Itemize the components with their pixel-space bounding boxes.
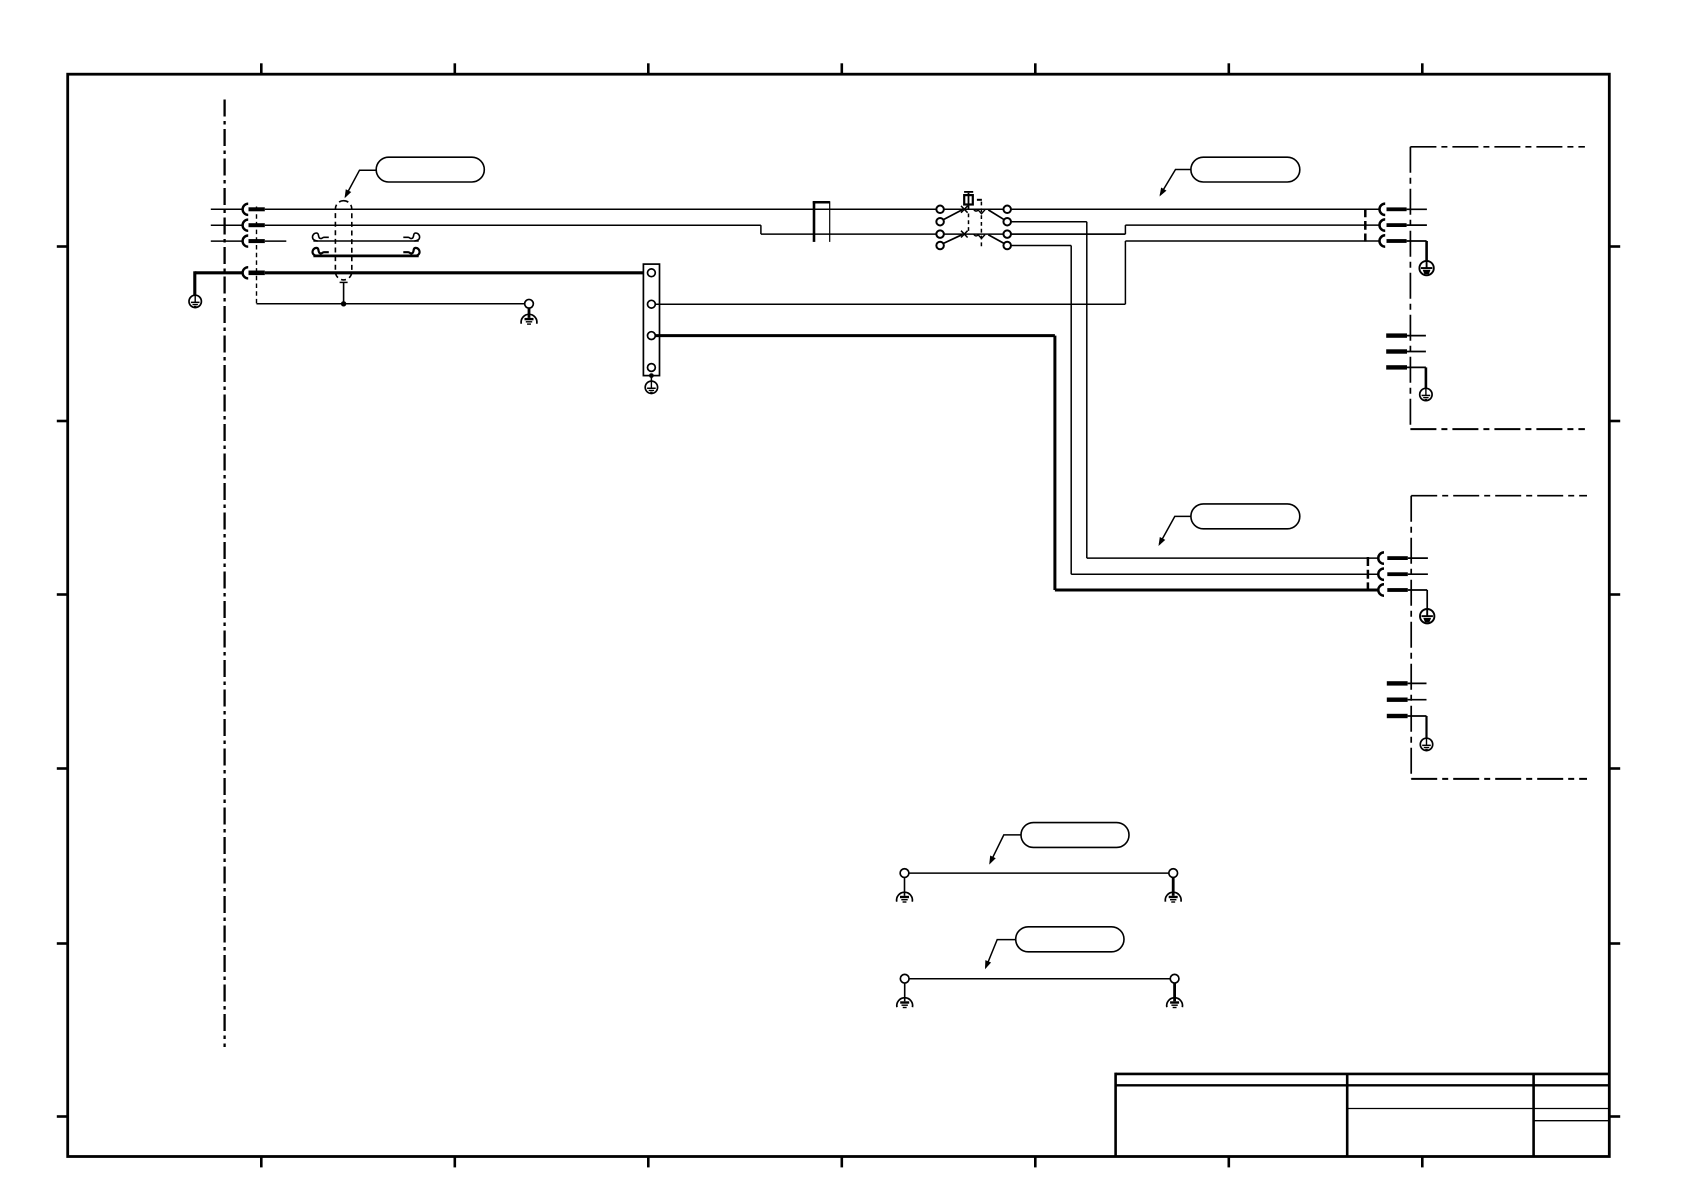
terminal strip X1 [643,264,659,381]
callout balloon (cable shield) [376,157,484,182]
shield drain stem [340,281,348,283]
wire shield drain to functional earth [257,303,525,305]
functional earth (dome) near input [521,299,537,324]
callout balloon (bonding strap 1) [1021,823,1129,848]
ground (circled earth) below terminal strip [645,381,657,393]
fuse F1 [813,201,830,242]
protective earth (circle + wedge) connector B [1420,609,1434,623]
wire X1 row3 to connector B row3 (thick) [655,334,1055,337]
enclosure A (dash-dot box) [1410,147,1585,429]
contactor Q1 (2 changeover poles) [936,191,1011,249]
wire L3 (stub) [211,240,243,242]
connector X0 (incoming supply, 4 contacts) [243,204,265,304]
callout balloon (connector B) [1191,504,1300,529]
connector B main contacts [1368,552,1428,609]
enclosure B (dash-dot box) [1411,496,1587,779]
strap 2 right terminal and earth [1167,974,1183,1008]
spare core 1 (coiled conductor, thin) [313,233,420,241]
callout balloon (connector A) [1191,157,1300,182]
ground (circled earth) connector A aux [1420,388,1432,400]
connector A aux contacts [1386,333,1426,388]
bonding strap 1 wire [909,872,1169,874]
panel boundary line (dash-dot) [223,100,225,1048]
wire PE (thick) [195,271,243,274]
wire L1 (phase, top) [211,208,243,210]
wire Q1 out (pole1 NO) to connector B row1 [1011,221,1087,223]
callout balloon (bonding strap 2) [1016,927,1124,952]
wire X1 row2 to connector A row3 [655,303,1125,305]
bonding strap 2 wire [909,978,1170,980]
wire L2 (phase, with jog down) [211,224,243,226]
spare core 2 (coiled conductor, thick) [313,248,420,256]
strap 2 left terminal and earth [897,974,913,1008]
strap 1 left terminal and earth [897,869,913,903]
cable shield (dashed ellipse) [335,201,351,280]
connector B aux contacts [1387,681,1427,738]
protective earth (circle + wedge) connector A [1419,261,1433,275]
wire Q1 out (pole2 NO) to connector B row2 [1011,245,1071,247]
connector A main contacts [1365,204,1427,261]
junction (shield drain to earth wire) [341,301,346,306]
strap 1 right terminal and earth [1165,869,1181,903]
wire Q1 out (pole2) jog up to connector A row2 [1011,233,1126,235]
ground PE (circled earth, left) [189,295,201,307]
ground (circled earth) connector B aux [1420,738,1432,750]
